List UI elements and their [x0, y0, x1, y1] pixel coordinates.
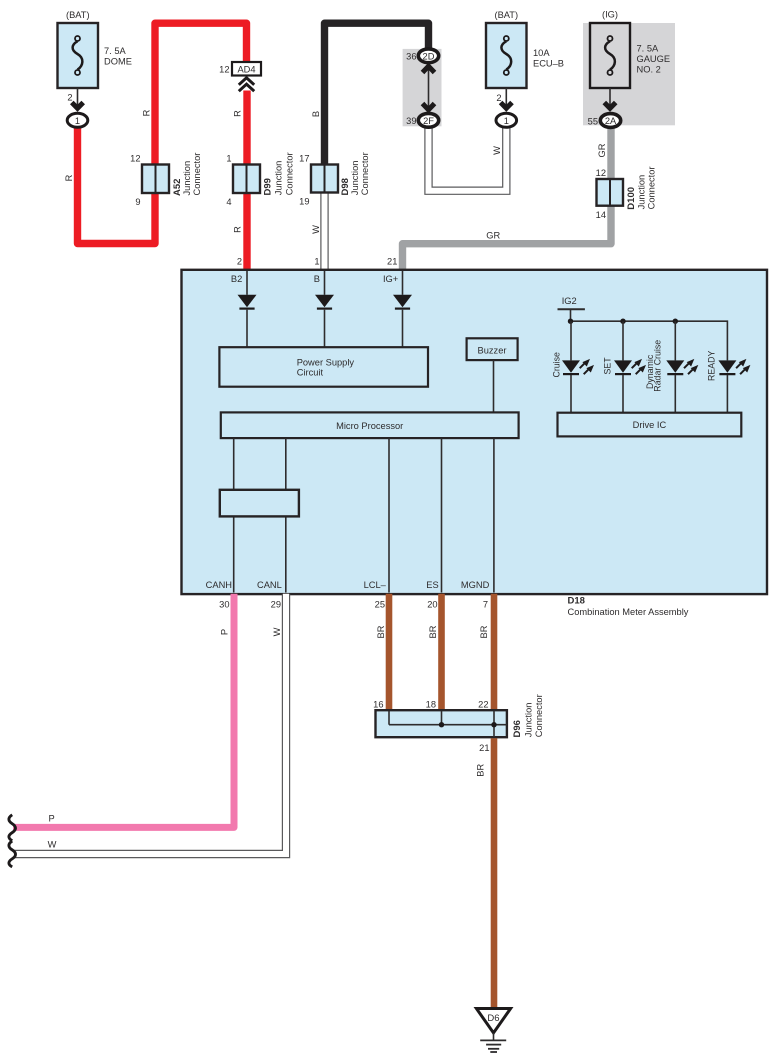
- svg-text:18: 18: [426, 700, 436, 710]
- svg-text:W: W: [311, 225, 321, 234]
- svg-text:Combination Meter Assembly: Combination Meter Assembly: [568, 607, 689, 617]
- svg-text:R: R: [232, 226, 242, 233]
- svg-text:29: 29: [271, 600, 281, 610]
- break symbol W: [9, 841, 16, 867]
- svg-text:19: 19: [299, 197, 309, 207]
- svg-text:CANH: CANH: [206, 580, 232, 590]
- svg-text:GR: GR: [486, 231, 500, 241]
- pin 29 CANL: [257, 580, 282, 610]
- svg-text:Power Supply: Power Supply: [297, 357, 355, 367]
- svg-text:W: W: [272, 627, 282, 636]
- svg-text:P: P: [220, 629, 230, 635]
- svg-text:P: P: [48, 814, 54, 824]
- svg-text:READY: READY: [707, 351, 717, 381]
- diode D-B2: [238, 271, 257, 347]
- svg-text:D100: D100: [626, 187, 637, 210]
- wire MGND internal: [493, 438, 495, 592]
- svg-text:Connector: Connector: [192, 153, 202, 196]
- junction connector D98: [299, 152, 370, 206]
- svg-text:Cruise: Cruise: [552, 352, 562, 378]
- svg-text:Drive IC: Drive IC: [633, 420, 667, 430]
- power supply circuit box: [219, 347, 428, 387]
- LED READY: [707, 351, 751, 413]
- svg-text:2: 2: [237, 256, 242, 266]
- svg-text:B: B: [311, 111, 321, 117]
- wire buzzer to micro processor: [493, 360, 495, 412]
- svg-text:39: 39: [406, 116, 416, 126]
- svg-text:W: W: [492, 146, 502, 155]
- pin 2 B2: [231, 256, 242, 284]
- svg-text:12: 12: [130, 154, 140, 164]
- svg-text:Micro Processor: Micro Processor: [336, 421, 403, 431]
- svg-text:Junction: Junction: [524, 703, 534, 738]
- svg-text:AD4: AD4: [237, 64, 255, 74]
- svg-text:(BAT): (BAT): [495, 10, 519, 20]
- node 1 (ECU-B): [496, 113, 517, 127]
- wire pink P CANH: [13, 594, 234, 828]
- combination meter assembly D18 box: [182, 270, 768, 617]
- fuse 7.5A DOME: [58, 10, 132, 88]
- svg-text:BR: BR: [428, 625, 438, 638]
- wire white W CANL: [13, 594, 286, 854]
- node 2F: [406, 113, 439, 127]
- junction connector D96: [373, 694, 544, 737]
- svg-text:D99: D99: [263, 178, 274, 195]
- svg-text:GR: GR: [597, 143, 607, 157]
- diode D-IG+: [393, 271, 412, 347]
- svg-text:BR: BR: [376, 625, 386, 638]
- svg-text:7: 7: [483, 600, 488, 610]
- break symbol P: [9, 815, 16, 841]
- buzzer box: [467, 338, 518, 360]
- svg-text:55: 55: [588, 117, 598, 127]
- svg-text:SET: SET: [603, 357, 613, 375]
- junction connector A52: [130, 153, 202, 207]
- ECU-B pin 2 lead and arrow: [496, 88, 512, 111]
- pin 21 IG+: [383, 256, 398, 284]
- svg-text:2D: 2D: [423, 52, 435, 62]
- junction connector D99: [226, 152, 294, 207]
- svg-text:7. 5A: 7. 5A: [637, 44, 660, 54]
- svg-text:IG+: IG+: [383, 274, 398, 284]
- connector AD4: [219, 62, 261, 91]
- wire red DOME pin1 to AD4: [78, 23, 247, 243]
- node 2D 2F link: [403, 49, 442, 126]
- svg-text:B: B: [314, 274, 320, 284]
- wire brown BR MGND: [491, 594, 498, 711]
- drive IC box: [558, 413, 742, 437]
- svg-text:GAUGE: GAUGE: [637, 54, 671, 64]
- svg-text:ECU–B: ECU–B: [533, 58, 564, 68]
- LED Cruise: [552, 321, 595, 413]
- wire LED bus: [568, 319, 728, 361]
- svg-text:1: 1: [504, 116, 509, 126]
- svg-text:Junction: Junction: [637, 175, 647, 210]
- ground D6: [476, 1009, 510, 1053]
- node 2D: [406, 49, 439, 63]
- svg-text:B2: B2: [231, 274, 242, 284]
- svg-text:Junction: Junction: [350, 161, 360, 196]
- svg-text:LCL–: LCL–: [364, 580, 387, 590]
- svg-text:7. 5A: 7. 5A: [104, 46, 127, 56]
- svg-text:Junction: Junction: [182, 161, 192, 196]
- svg-text:Connector: Connector: [284, 152, 294, 195]
- LED Dynamic Radar Cruise: [645, 321, 698, 413]
- wire white W 2F to ECU-B pin 1: [429, 126, 507, 191]
- svg-text:Junction: Junction: [273, 161, 283, 196]
- svg-text:1: 1: [75, 116, 80, 126]
- junction connector D100: [596, 166, 657, 220]
- svg-text:9: 9: [135, 197, 140, 207]
- svg-text:14: 14: [596, 210, 606, 220]
- svg-text:2: 2: [496, 93, 501, 103]
- svg-text:D6: D6: [487, 1013, 499, 1024]
- svg-text:22: 22: [478, 700, 488, 710]
- svg-text:(BAT): (BAT): [66, 10, 90, 20]
- wire red AD4 to D18 pin B2: [243, 91, 250, 270]
- fuse 7.5A GAUGE NO.2: [583, 10, 675, 126]
- svg-text:Circuit: Circuit: [297, 367, 324, 377]
- wire LCL internal: [388, 438, 390, 592]
- pin 25 LCL-: [364, 580, 387, 610]
- svg-text:DOME: DOME: [104, 56, 132, 66]
- DOME pin 2 lead and arrow: [67, 88, 83, 111]
- pin 1 B: [314, 256, 320, 284]
- wire ES internal: [441, 438, 443, 592]
- svg-text:Connector: Connector: [534, 694, 544, 737]
- svg-text:16: 16: [373, 700, 383, 710]
- svg-text:2: 2: [67, 93, 72, 103]
- diode D-B: [315, 271, 334, 347]
- svg-text:25: 25: [375, 600, 385, 610]
- svg-text:R: R: [232, 110, 242, 117]
- svg-text:12: 12: [219, 65, 229, 75]
- svg-text:17: 17: [299, 154, 309, 164]
- fuse 10A ECU-B: [486, 10, 564, 88]
- svg-text:BR: BR: [476, 764, 486, 777]
- svg-text:IG2: IG2: [562, 296, 577, 306]
- wire white W D98 to D18 pin B: [320, 192, 328, 270]
- pin 7 MGND: [461, 580, 490, 610]
- wire brown BR D96 to ground: [491, 738, 498, 1008]
- svg-text:21: 21: [479, 743, 489, 753]
- LED SET: [603, 321, 647, 413]
- svg-text:BR: BR: [479, 625, 489, 638]
- wire CANL internal: [285, 438, 287, 592]
- svg-text:20: 20: [427, 600, 437, 610]
- wire CANH internal: [233, 438, 235, 592]
- svg-text:D18: D18: [568, 596, 585, 607]
- micro processor box: [221, 412, 519, 438]
- node 1 (DOME): [67, 113, 88, 127]
- svg-text:36: 36: [406, 52, 416, 62]
- pin 30 CANH: [206, 580, 232, 610]
- svg-text:Connector: Connector: [360, 152, 370, 195]
- svg-text:ES: ES: [426, 580, 438, 590]
- svg-text:MGND: MGND: [461, 580, 490, 590]
- node IG2: [558, 296, 585, 321]
- svg-text:W: W: [48, 840, 57, 850]
- wire black B to D98: [325, 23, 429, 166]
- GAUGE pin 55 lead and arrow: [588, 88, 616, 127]
- wire brown BR ES: [438, 594, 445, 711]
- svg-text:1: 1: [314, 256, 319, 266]
- wire gray GR 2A to D18 pin IG+: [403, 128, 612, 270]
- svg-text:12: 12: [596, 168, 606, 178]
- svg-text:(IG): (IG): [602, 10, 618, 20]
- svg-text:10A: 10A: [533, 48, 550, 58]
- svg-text:CANL: CANL: [257, 580, 282, 590]
- pin 20 ES: [426, 580, 438, 610]
- svg-text:2F: 2F: [423, 116, 434, 126]
- CAN transceiver box: [220, 490, 299, 517]
- node 2A: [600, 114, 620, 128]
- svg-text:Radar Cruise: Radar Cruise: [652, 340, 662, 392]
- svg-text:4: 4: [226, 197, 231, 207]
- svg-text:21: 21: [387, 256, 397, 266]
- svg-text:Connector: Connector: [647, 166, 657, 209]
- svg-text:30: 30: [219, 600, 229, 610]
- svg-text:Buzzer: Buzzer: [478, 345, 507, 355]
- svg-text:R: R: [64, 174, 74, 181]
- svg-text:D96: D96: [512, 720, 523, 737]
- svg-text:NO. 2: NO. 2: [637, 64, 661, 74]
- svg-text:1: 1: [226, 154, 231, 164]
- wire brown BR LCL-: [386, 594, 393, 711]
- svg-text:R: R: [141, 109, 151, 116]
- svg-text:2A: 2A: [605, 116, 617, 126]
